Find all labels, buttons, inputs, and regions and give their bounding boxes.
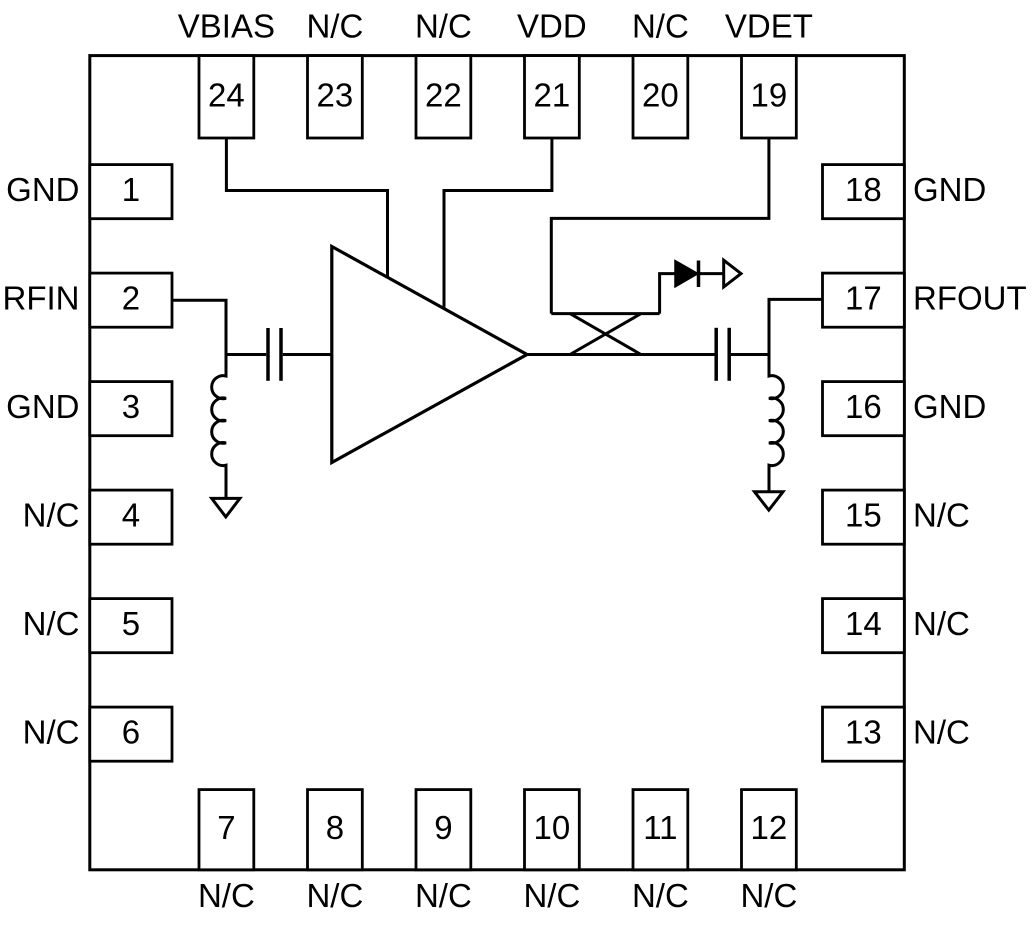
svg-text:19: 19	[751, 76, 788, 113]
svg-text:GND: GND	[913, 171, 986, 208]
svg-text:N/C: N/C	[913, 714, 970, 751]
svg-text:RFIN: RFIN	[3, 280, 80, 317]
amplifier A1	[332, 247, 527, 463]
wire VDD: pin 21 to amplifier supply	[444, 138, 552, 310]
svg-text:17: 17	[845, 280, 882, 317]
pin 3 box	[90, 382, 172, 436]
svg-text:9: 9	[434, 809, 452, 846]
pin 4 box	[90, 490, 172, 544]
wire input cap to amplifier input	[283, 353, 332, 356]
pin 18 box	[823, 165, 905, 219]
pin 23 box	[308, 56, 363, 138]
svg-text:20: 20	[642, 76, 679, 113]
pin 21 box	[525, 56, 580, 138]
package outline U1	[90, 56, 905, 870]
pin 5 box	[90, 599, 172, 653]
svg-text:23: 23	[317, 76, 354, 113]
detector output arrow (open arrowhead)	[724, 260, 741, 287]
pin 10 box	[525, 790, 580, 870]
svg-text:VDET: VDET	[725, 7, 813, 44]
svg-text:N/C: N/C	[306, 7, 363, 44]
svg-text:N/C: N/C	[740, 877, 797, 914]
svg-text:5: 5	[122, 605, 140, 642]
inductor L1 (input shunt choke)	[212, 355, 226, 499]
wire RFIN: pin 2 to input network	[172, 300, 226, 354]
pin 15 box	[823, 490, 905, 544]
ground (output shunt)	[755, 492, 784, 510]
pin 17 box	[823, 273, 905, 327]
pin 19 box	[742, 56, 797, 138]
svg-text:18: 18	[845, 171, 882, 208]
svg-text:11: 11	[643, 809, 677, 846]
svg-text:N/C: N/C	[415, 877, 472, 914]
svg-text:14: 14	[845, 605, 882, 642]
diode D1 cathode bar	[697, 261, 701, 288]
capacitor C2 (output DC block)	[716, 328, 729, 381]
svg-text:16: 16	[845, 388, 882, 425]
svg-text:VDD: VDD	[517, 7, 587, 44]
inductor L2 (output shunt choke)	[769, 355, 783, 492]
pin 16 box	[823, 382, 905, 436]
coupler X (directional coupler)	[570, 314, 641, 355]
svg-text:GND: GND	[913, 388, 986, 425]
svg-text:2: 2	[122, 280, 140, 317]
pin 14 box	[823, 599, 905, 653]
wire sense line to detector diode anode	[660, 274, 675, 314]
svg-text:15: 15	[845, 497, 882, 534]
svg-text:GND: GND	[6, 388, 79, 425]
svg-text:24: 24	[208, 76, 245, 113]
svg-text:N/C: N/C	[632, 7, 689, 44]
svg-text:1: 1	[122, 171, 140, 208]
pin 11 box	[633, 790, 688, 870]
pin 6 box	[90, 707, 172, 761]
wire RFOUT: output node to pin 17	[769, 299, 823, 354]
wire output cap to RFOUT node	[731, 353, 769, 356]
diode D1 (detector)	[675, 261, 698, 288]
svg-text:GND: GND	[6, 171, 79, 208]
svg-text:N/C: N/C	[913, 497, 970, 534]
svg-text:22: 22	[425, 76, 462, 113]
svg-text:N/C: N/C	[23, 605, 80, 642]
svg-text:N/C: N/C	[23, 497, 80, 534]
wire diode cathode to detector output arrow	[700, 272, 723, 275]
pin 20 box	[633, 56, 688, 138]
pin 8 box	[308, 790, 363, 870]
pin 12 box	[742, 790, 797, 870]
svg-text:13: 13	[845, 714, 882, 751]
wire input cap left lead	[226, 353, 266, 356]
svg-text:4: 4	[122, 497, 140, 534]
svg-text:N/C: N/C	[913, 605, 970, 642]
svg-text:N/C: N/C	[523, 877, 580, 914]
svg-text:3: 3	[122, 388, 140, 425]
pin 9 box	[416, 790, 471, 870]
svg-text:RFOUT: RFOUT	[913, 280, 1027, 317]
svg-text:21: 21	[534, 76, 571, 113]
wire VDET: pin 19 to coupler sense line	[551, 138, 769, 314]
svg-text:N/C: N/C	[306, 877, 363, 914]
svg-text:N/C: N/C	[198, 877, 255, 914]
svg-text:8: 8	[326, 809, 344, 846]
svg-text:7: 7	[217, 809, 235, 846]
pin 13 box	[823, 707, 905, 761]
ground (input shunt)	[212, 498, 240, 517]
pin 1 box	[90, 165, 172, 219]
svg-text:6: 6	[122, 714, 140, 751]
svg-text:VBIAS: VBIAS	[178, 7, 275, 44]
pin 7 box	[199, 790, 254, 870]
pin 24 box	[199, 56, 254, 138]
wire amplifier output main line	[527, 353, 715, 356]
pin 2 box	[90, 273, 172, 327]
svg-text:N/C: N/C	[632, 877, 689, 914]
svg-text:N/C: N/C	[23, 714, 80, 751]
wire coupler sense line	[551, 312, 659, 315]
svg-text:N/C: N/C	[415, 7, 472, 44]
svg-text:10: 10	[534, 809, 571, 846]
pin 22 box	[416, 56, 471, 138]
svg-text:12: 12	[751, 809, 788, 846]
wire VBIAS: pin 24 to amplifier bias input	[226, 138, 387, 278]
capacitor C1 (input DC block)	[268, 328, 281, 381]
